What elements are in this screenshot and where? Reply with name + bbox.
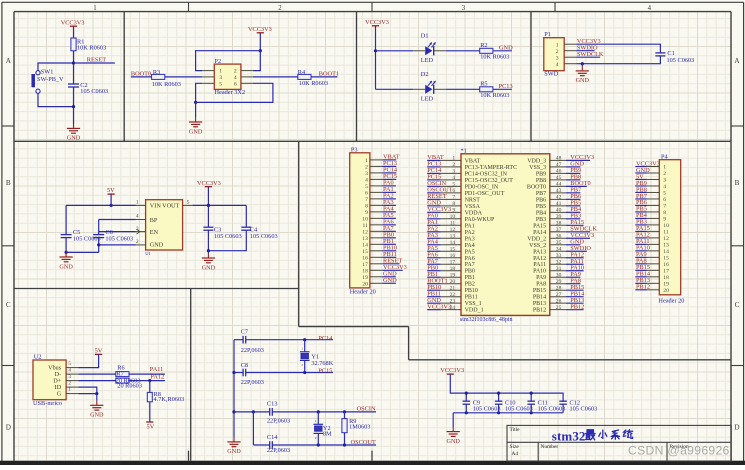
svg-text:stm32f103c8t6_48pin: stm32f103c8t6_48pin [460, 316, 513, 323]
svg-text:48: 48 [556, 156, 562, 162]
svg-text:18: 18 [663, 275, 669, 281]
svg-text:5: 5 [663, 191, 666, 197]
svg-text:17: 17 [663, 268, 669, 274]
svg-text:RESET: RESET [87, 57, 106, 64]
svg-text:9: 9 [663, 217, 666, 223]
svg-text:6: 6 [234, 81, 237, 87]
svg-text:VCC3V3: VCC3V3 [61, 19, 85, 26]
svg-text:12: 12 [450, 227, 456, 233]
svg-text:D2: D2 [421, 71, 429, 78]
svg-text:USB-mrico: USB-mrico [33, 400, 62, 407]
svg-text:VCC3V3: VCC3V3 [365, 19, 389, 26]
svg-text:A4: A4 [512, 451, 519, 457]
svg-text:7: 7 [663, 204, 666, 210]
svg-text:10K R0603: 10K R0603 [480, 92, 509, 99]
svg-text:3: 3 [68, 374, 71, 380]
svg-text:VIN: VIN [150, 203, 162, 210]
svg-text:5: 5 [68, 361, 71, 367]
svg-text:2: 2 [234, 69, 237, 75]
svg-text:5: 5 [187, 200, 190, 206]
svg-text:1: 1 [365, 158, 368, 164]
svg-text:PC15-OSC32_OUT: PC15-OSC32_OUT [465, 178, 514, 184]
svg-text:16: 16 [450, 253, 456, 259]
svg-text:9: 9 [365, 210, 368, 216]
svg-text:3: 3 [663, 178, 666, 184]
svg-text:45: 45 [556, 175, 562, 181]
svg-text:PA11: PA11 [150, 366, 164, 373]
svg-text:13: 13 [450, 233, 456, 239]
svg-text:10K R0603: 10K R0603 [299, 80, 328, 87]
svg-text:NRST: NRST [465, 197, 481, 203]
svg-text:Size: Size [510, 444, 520, 450]
svg-text:SWD: SWD [544, 71, 558, 78]
svg-text:5V: 5V [147, 423, 155, 430]
svg-text:PA11: PA11 [533, 262, 546, 268]
svg-text:4: 4 [452, 175, 455, 181]
svg-text:4: 4 [648, 5, 652, 12]
svg-text:PA15: PA15 [533, 223, 546, 229]
svg-text:5V: 5V [95, 348, 103, 355]
svg-text:P2: P2 [215, 58, 222, 65]
svg-text:PC15: PC15 [318, 367, 332, 374]
svg-text:B: B [6, 179, 11, 187]
svg-text:4: 4 [136, 214, 139, 220]
svg-text:D: D [6, 424, 11, 432]
svg-text:15: 15 [450, 246, 456, 252]
svg-text:41: 41 [556, 201, 562, 207]
svg-text:GND: GND [383, 277, 397, 284]
svg-text:6: 6 [452, 188, 455, 194]
svg-text:PA9: PA9 [536, 275, 546, 281]
svg-text:PD1-OSC_OUT: PD1-OSC_OUT [465, 191, 505, 197]
svg-text:PB12: PB12 [636, 284, 650, 291]
svg-text:2: 2 [452, 162, 455, 168]
svg-text:22P,0603: 22P,0603 [267, 418, 290, 425]
svg-text:5V: 5V [107, 187, 115, 194]
svg-text:21: 21 [450, 285, 456, 291]
svg-text:6: 6 [663, 197, 666, 203]
svg-text:C: C [6, 301, 11, 309]
svg-text:105 C0603: 105 C0603 [505, 405, 533, 412]
svg-text:38: 38 [556, 220, 562, 226]
svg-text:16: 16 [362, 255, 368, 261]
svg-text:105 C0603: 105 C0603 [538, 405, 566, 412]
svg-text:BOOT1: BOOT1 [319, 71, 339, 78]
svg-text:13: 13 [663, 242, 669, 248]
svg-text:C8: C8 [241, 362, 248, 369]
svg-text:20: 20 [663, 288, 669, 294]
svg-text:4.7K,R0603: 4.7K,R0603 [154, 396, 185, 403]
svg-text:19: 19 [663, 281, 669, 287]
svg-text:VCC3V3: VCC3V3 [197, 180, 221, 187]
svg-text:4: 4 [663, 184, 666, 190]
svg-text:2: 2 [556, 49, 559, 55]
svg-text:VSSA: VSSA [465, 204, 481, 210]
svg-text:42: 42 [556, 194, 562, 200]
svg-text:22P,0603: 22P,0603 [267, 447, 290, 454]
svg-text:C7: C7 [241, 328, 248, 335]
svg-text:PD0-OSC_IN: PD0-OSC_IN [465, 184, 499, 190]
svg-text:2: 2 [136, 239, 139, 245]
svg-text:VCC3V3: VCC3V3 [427, 303, 451, 310]
svg-text:LED: LED [421, 96, 434, 103]
svg-text:2: 2 [315, 436, 317, 440]
svg-text:Header 20: Header 20 [350, 289, 376, 296]
svg-text:1: 1 [93, 5, 96, 12]
svg-text:P1: P1 [544, 31, 551, 38]
svg-text:1: 1 [663, 165, 666, 171]
svg-text:3: 3 [452, 168, 455, 174]
svg-text:3: 3 [219, 75, 222, 81]
svg-text:VSS_3: VSS_3 [529, 165, 546, 171]
svg-text:105 C0603: 105 C0603 [473, 405, 501, 412]
svg-text:stm32: stm32 [552, 428, 586, 443]
svg-text:18: 18 [362, 268, 368, 274]
svg-text:PC13-TAMPER-RTC: PC13-TAMPER-RTC [465, 165, 517, 171]
svg-text:15: 15 [362, 249, 368, 255]
svg-text:33: 33 [556, 253, 562, 259]
svg-text:EN: EN [150, 229, 159, 236]
svg-text:3: 3 [462, 5, 466, 12]
svg-text:9: 9 [452, 207, 455, 213]
svg-text:17: 17 [450, 259, 456, 265]
svg-text:VCC3V3: VCC3V3 [248, 26, 272, 33]
svg-text:C: C [735, 301, 740, 309]
svg-text:105 C0603: 105 C0603 [570, 405, 598, 412]
svg-text:14: 14 [663, 249, 669, 255]
svg-text:6: 6 [365, 190, 368, 196]
svg-text:Header 3X2: Header 3X2 [215, 89, 246, 96]
svg-text:12: 12 [362, 229, 368, 235]
svg-text:PA4: PA4 [465, 243, 475, 249]
svg-text:105 C0603: 105 C0603 [105, 235, 133, 242]
svg-text:PA10: PA10 [533, 269, 546, 275]
svg-text:2: 2 [301, 363, 303, 367]
svg-text:105 C0603: 105 C0603 [80, 88, 108, 95]
svg-text:VBAT: VBAT [465, 158, 481, 164]
svg-text:VSS_2: VSS_2 [529, 243, 546, 249]
svg-text:18: 18 [450, 266, 456, 272]
svg-text:PB7: PB7 [536, 191, 546, 197]
svg-text:1: 1 [301, 346, 303, 350]
svg-text:PA5: PA5 [465, 249, 475, 255]
svg-text:VSS_1: VSS_1 [465, 301, 482, 307]
svg-text:29: 29 [556, 279, 562, 285]
svg-text:PA3: PA3 [465, 236, 475, 242]
svg-text:PA6: PA6 [465, 256, 475, 262]
svg-text:PC13: PC13 [499, 83, 513, 90]
svg-text:PB3: PB3 [536, 217, 546, 223]
svg-text:PA0-WKUP: PA0-WKUP [465, 217, 495, 223]
svg-text:GND: GND [446, 438, 460, 445]
svg-text:PB9: PB9 [536, 171, 546, 177]
svg-text:7: 7 [452, 194, 455, 200]
svg-text:20 R0603: 20 R0603 [117, 383, 142, 390]
svg-text:43: 43 [556, 188, 562, 194]
svg-text:27: 27 [556, 292, 562, 298]
svg-text:SW-PB_V: SW-PB_V [37, 76, 64, 83]
svg-text:PB2: PB2 [465, 282, 475, 288]
svg-text:GND: GND [227, 448, 241, 455]
svg-text:14: 14 [450, 240, 456, 246]
svg-text:SW1: SW1 [41, 68, 54, 75]
svg-text:37: 37 [556, 227, 562, 233]
svg-text:20: 20 [450, 279, 456, 285]
svg-text:17: 17 [362, 262, 368, 268]
svg-text:PB15: PB15 [533, 288, 546, 294]
svg-text:1: 1 [219, 69, 222, 75]
svg-text:PB5: PB5 [536, 204, 546, 210]
svg-text:PB0: PB0 [465, 269, 475, 275]
svg-text:PB14: PB14 [533, 295, 546, 301]
svg-text:R4: R4 [298, 69, 306, 76]
svg-text:16: 16 [663, 262, 669, 268]
svg-text:U2: U2 [34, 354, 42, 361]
svg-text:39: 39 [556, 214, 562, 220]
svg-text:PB13: PB13 [533, 301, 546, 307]
svg-text:26: 26 [556, 298, 562, 304]
svg-text:C13: C13 [267, 400, 278, 407]
svg-text:24: 24 [450, 305, 456, 311]
svg-text:G: G [57, 391, 62, 398]
svg-text:VOUT: VOUT [162, 203, 179, 210]
svg-text:1M0603: 1M0603 [349, 423, 370, 430]
svg-text:105 C0603: 105 C0603 [250, 233, 278, 240]
svg-text:28: 28 [556, 285, 562, 291]
svg-text:GND: GND [499, 45, 513, 52]
svg-text:1: 1 [68, 387, 71, 393]
svg-text:1: 1 [452, 156, 455, 162]
svg-text:B: B [735, 179, 740, 187]
svg-text:105 C0603: 105 C0603 [667, 57, 695, 64]
svg-text:PA12: PA12 [150, 373, 164, 380]
svg-text:10K R0603: 10K R0603 [480, 53, 509, 60]
svg-text:PB11: PB11 [465, 295, 478, 301]
svg-text:35: 35 [556, 240, 562, 246]
svg-text:30: 30 [556, 272, 562, 278]
svg-text:PB4: PB4 [536, 210, 546, 216]
svg-text:7: 7 [365, 197, 368, 203]
svg-text:Number: Number [541, 444, 559, 450]
svg-text:3: 3 [136, 226, 139, 232]
svg-text:A: A [734, 57, 740, 65]
svg-text:105 C0603: 105 C0603 [214, 233, 242, 240]
svg-text:GND: GND [576, 77, 590, 84]
svg-text:22P,0603: 22P,0603 [241, 347, 264, 354]
svg-text:GND: GND [202, 264, 216, 271]
svg-text:19: 19 [362, 275, 368, 281]
svg-text:PA12: PA12 [533, 256, 546, 262]
svg-text:10: 10 [450, 214, 456, 220]
svg-text:R2: R2 [480, 42, 487, 49]
svg-text:PB12: PB12 [570, 303, 584, 310]
svg-text:15: 15 [663, 255, 669, 261]
svg-text:U1: U1 [145, 251, 151, 256]
svg-text:2: 2 [365, 164, 368, 170]
svg-text:PB8: PB8 [536, 178, 546, 184]
svg-text:LED: LED [421, 57, 434, 64]
svg-text:11: 11 [363, 223, 369, 229]
svg-text:1: 1 [315, 419, 317, 423]
svg-text:8M: 8M [323, 431, 332, 438]
svg-text:14: 14 [362, 242, 368, 248]
svg-text:OSCOUT: OSCOUT [351, 439, 376, 446]
svg-text:VDDA: VDDA [465, 210, 483, 216]
svg-text:10K R0603: 10K R0603 [77, 45, 106, 52]
svg-text:8: 8 [365, 203, 368, 209]
svg-text:22P,0603: 22P,0603 [241, 379, 264, 386]
svg-text:PA1: PA1 [465, 223, 475, 229]
svg-text:R3: R3 [153, 69, 160, 76]
svg-text:46: 46 [556, 168, 562, 174]
svg-text:40: 40 [556, 207, 562, 213]
svg-text:20: 20 [362, 281, 368, 287]
svg-text:2: 2 [278, 5, 282, 12]
svg-text:VDD_1: VDD_1 [465, 308, 484, 314]
svg-text:11: 11 [663, 230, 669, 236]
svg-text:10: 10 [362, 216, 368, 222]
svg-text:32: 32 [556, 259, 562, 265]
svg-text:4: 4 [365, 177, 368, 183]
svg-text:PB12: PB12 [533, 308, 546, 314]
svg-text:36: 36 [556, 233, 562, 239]
svg-text:VDD_2: VDD_2 [527, 236, 546, 242]
svg-text:10: 10 [663, 223, 669, 229]
svg-text:PC14-OSC32_IN: PC14-OSC32_IN [465, 171, 508, 177]
svg-text:Title: Title [510, 427, 521, 433]
svg-text:PC14: PC14 [318, 335, 333, 342]
svg-text:VCC3V3: VCC3V3 [440, 367, 464, 374]
svg-text:8: 8 [452, 201, 455, 207]
svg-text:3: 3 [365, 171, 368, 177]
svg-text:PA2: PA2 [465, 230, 475, 236]
svg-text:GND: GND [90, 412, 104, 419]
svg-text:C14: C14 [267, 434, 278, 441]
svg-text:SWDCLK: SWDCLK [577, 51, 604, 58]
svg-text:34: 34 [556, 246, 562, 252]
svg-text:10K R0603: 10K R0603 [152, 81, 181, 88]
svg-text:3: 3 [556, 55, 559, 61]
svg-text:PA14: PA14 [533, 230, 546, 236]
svg-text:13: 13 [362, 236, 368, 242]
svg-text:PB10: PB10 [465, 288, 478, 294]
svg-text:R5: R5 [480, 81, 487, 88]
svg-text:5: 5 [365, 184, 368, 190]
svg-text:2: 2 [663, 171, 666, 177]
svg-text:5: 5 [452, 181, 455, 187]
svg-text:44: 44 [556, 181, 562, 187]
svg-text:4: 4 [234, 75, 237, 81]
svg-text:105 C0603: 105 C0603 [73, 235, 101, 242]
svg-text:A: A [6, 57, 12, 65]
svg-text:8: 8 [663, 210, 666, 216]
svg-text:D1: D1 [421, 32, 429, 39]
svg-text:11: 11 [450, 220, 456, 226]
svg-text:*1: *1 [461, 148, 467, 155]
svg-text:BP: BP [150, 217, 158, 224]
svg-text:PA7: PA7 [465, 262, 475, 268]
svg-text:12: 12 [663, 236, 669, 242]
svg-text:OSCIN: OSCIN [357, 406, 376, 413]
svg-text:1: 1 [556, 42, 559, 48]
svg-text:47: 47 [556, 162, 562, 168]
svg-text:25: 25 [556, 305, 562, 311]
svg-text:19: 19 [450, 272, 456, 278]
svg-text:D: D [734, 424, 739, 432]
svg-text:5: 5 [219, 81, 222, 87]
svg-text:BOOT0: BOOT0 [527, 184, 546, 190]
svg-text:P3: P3 [351, 147, 358, 154]
svg-text:4: 4 [68, 367, 71, 373]
svg-text:GND: GND [150, 241, 164, 248]
svg-text:31: 31 [556, 266, 562, 272]
svg-text:1: 1 [136, 200, 139, 206]
svg-text:32.768K: 32.768K [311, 360, 333, 367]
svg-text:P4: P4 [661, 153, 669, 160]
svg-text:GND: GND [67, 135, 81, 142]
svg-text:VDD_3: VDD_3 [527, 158, 546, 164]
svg-text:22: 22 [450, 292, 456, 298]
svg-text:GND: GND [59, 263, 73, 270]
svg-text:PA13: PA13 [533, 249, 546, 255]
svg-text:4: 4 [556, 62, 559, 68]
svg-text:GND: GND [189, 128, 203, 135]
svg-text:PB6: PB6 [536, 197, 546, 203]
svg-text:Header 20: Header 20 [658, 297, 684, 304]
svg-text:2: 2 [68, 380, 71, 386]
svg-text:PA8: PA8 [536, 282, 546, 288]
svg-text:PB1: PB1 [465, 275, 475, 281]
svg-text:CSDN @a996926: CSDN @a996926 [628, 443, 730, 457]
